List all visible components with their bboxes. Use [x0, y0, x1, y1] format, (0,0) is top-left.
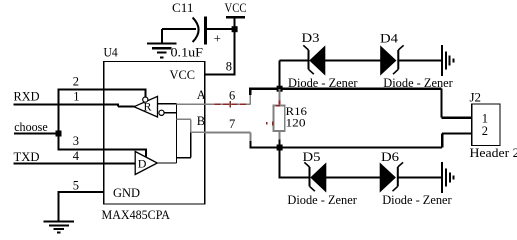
wire TXD pin4	[14, 162, 137, 164]
junction cap/VCC	[232, 26, 238, 32]
ground (chassis, right of D4)	[442, 45, 453, 76]
IC U4 MAX485CPA body	[104, 61, 205, 204]
wire net B long line to J2 pin2	[249, 134, 471, 149]
svg-text:Diode - Zener: Diode - Zener	[382, 192, 452, 207]
diode D4 (zener, cathode right)	[381, 45, 442, 74]
ground (chassis, right of D6)	[442, 162, 453, 193]
diode D3 (zener, cathode left)	[280, 45, 381, 74]
svg-text:D4: D4	[380, 31, 399, 46]
svg-text:U4: U4	[104, 45, 119, 60]
svg-text:D3: D3	[302, 30, 320, 45]
svg-text:120: 120	[286, 115, 306, 129]
junction node A	[277, 86, 283, 92]
svg-text:3: 3	[73, 134, 79, 148]
svg-text:Diode - Zener: Diode - Zener	[383, 75, 453, 90]
wire RXD pin1	[14, 104, 135, 106]
svg-text:Diode - Zener: Diode - Zener	[287, 192, 357, 207]
svg-text:4: 4	[73, 149, 80, 163]
svg-text:GND: GND	[113, 185, 140, 200]
junction choose	[56, 131, 62, 137]
driver triangle D	[135, 152, 157, 175]
svg-text:+: +	[214, 31, 221, 46]
junction node B	[277, 145, 283, 151]
internal wire B	[164, 113, 191, 158]
red marks on A wire	[215, 101, 247, 108]
svg-text:D: D	[138, 157, 147, 171]
svg-text:TXD: TXD	[14, 149, 40, 164]
svg-text:VCC: VCC	[225, 0, 247, 15]
svg-text:choose: choose	[14, 120, 48, 134]
wire net A long line to J2 pin1	[249, 88, 471, 118]
svg-text:Diode - Zener: Diode - Zener	[288, 75, 358, 90]
wire pin7 B (gray)	[205, 132, 251, 142]
wire pin3 DE	[59, 150, 147, 159]
svg-text:D6: D6	[381, 149, 400, 164]
svg-text:A: A	[197, 88, 206, 102]
cap straight plate	[204, 17, 207, 45]
diode D6 (zener, cathode right)	[380, 162, 442, 191]
svg-text:D5: D5	[303, 149, 321, 164]
wire pin5	[58, 192, 104, 222]
wire pin8	[205, 73, 236, 75]
svg-text:2: 2	[482, 124, 488, 138]
ground for C11	[147, 44, 176, 58]
svg-text:1: 1	[73, 90, 79, 104]
receiver triangle R	[134, 96, 164, 117]
wire bus top (net A)	[279, 61, 281, 90]
ground GND bottom-left	[44, 222, 74, 233]
svg-text:C11: C11	[172, 0, 194, 15]
wire cap right to VCC stem	[206, 28, 235, 30]
svg-text:0.1uF: 0.1uF	[171, 45, 204, 60]
wire pin6 A (gray)	[205, 94, 251, 104]
wire pin2 RE	[58, 90, 147, 97]
wire bus bottom (net B)	[279, 148, 281, 179]
wire choose	[14, 89, 59, 151]
svg-text:J2: J2	[470, 90, 482, 105]
svg-text:Header 2: Header 2	[470, 145, 517, 160]
svg-text:MAX485CPA: MAX485CPA	[102, 207, 171, 222]
svg-text:RXD: RXD	[14, 89, 40, 104]
bubble on RE enable	[143, 97, 148, 102]
bubble on R inverting input	[159, 110, 164, 115]
svg-text:6: 6	[229, 89, 235, 103]
svg-text:5: 5	[73, 179, 79, 193]
diode D5 (zener, cathode left)	[280, 162, 381, 191]
svg-text:2: 2	[73, 75, 79, 89]
svg-text:8: 8	[226, 60, 232, 74]
wire cap left	[162, 29, 196, 44]
internal wire A	[157, 104, 176, 163]
svg-text:VCC: VCC	[170, 67, 196, 82]
resistor R16	[267, 89, 285, 148]
svg-text:B: B	[197, 114, 205, 128]
internal gray stub A to edge	[177, 104, 205, 132]
cap curved plate	[193, 18, 199, 43]
svg-text:7: 7	[229, 117, 235, 131]
